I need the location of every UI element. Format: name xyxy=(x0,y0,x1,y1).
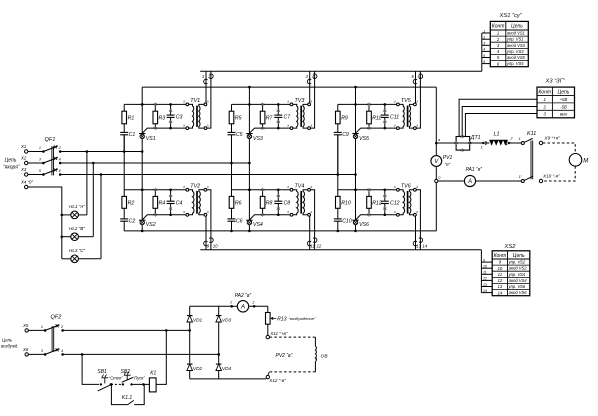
svg-text:13: 13 xyxy=(416,244,421,249)
svg-text:VS4: VS4 xyxy=(253,222,263,228)
svg-text:1: 1 xyxy=(230,300,232,304)
svg-text:11: 11 xyxy=(311,244,315,249)
svg-text:X2: X2 xyxy=(20,156,27,161)
svg-text:TV1: TV1 xyxy=(190,98,200,104)
svg-text:a: a xyxy=(207,100,209,104)
svg-text:“я”: “я” xyxy=(445,162,451,167)
pulse transformer TV4 xyxy=(287,183,312,216)
solder marks TV6 xyxy=(368,188,370,192)
thyristor tap VS4 xyxy=(247,220,251,224)
svg-text:анод VS6: анод VS6 xyxy=(509,290,528,295)
thyristor tap VS2 xyxy=(140,220,144,224)
svg-text:“возбуждение”: “возбуждение” xyxy=(289,316,316,321)
resistor R11 xyxy=(368,104,370,111)
wire XS1 stub 3 xyxy=(482,44,491,46)
wire DT1 signal 1 xyxy=(459,99,537,136)
svg-text:HL2 “B”: HL2 “B” xyxy=(69,226,85,231)
svg-text:VS3: VS3 xyxy=(253,136,263,142)
junction dots TV1 xyxy=(141,103,144,106)
svg-text:“Стоп”: “Стоп” xyxy=(109,376,123,381)
svg-text:XS2: XS2 xyxy=(504,244,517,250)
svg-text:VD1: VD1 xyxy=(193,318,203,324)
wire bus to XS1 xyxy=(481,33,483,71)
svg-text:C10: C10 xyxy=(342,218,352,224)
svg-text:12: 12 xyxy=(498,278,503,283)
svg-text:14: 14 xyxy=(483,289,487,293)
svg-text:C3: C3 xyxy=(176,115,183,121)
svg-text:a: a xyxy=(287,210,289,214)
svg-text:Цепь: Цепь xyxy=(5,158,17,164)
wire lamp drop A xyxy=(86,152,88,215)
capacitor C1 xyxy=(123,124,125,133)
svg-text:3: 3 xyxy=(483,42,485,46)
svg-text:Цепь: Цепь xyxy=(2,338,13,343)
circuit breaker QF1 xyxy=(39,137,62,176)
svg-text:вых: вых xyxy=(560,112,568,117)
wire VS column 1 xyxy=(141,87,143,231)
wire XS2 stub 14 xyxy=(481,292,492,294)
svg-text:ДТ1: ДТ1 xyxy=(470,135,481,141)
wire XS2 stub 11 xyxy=(481,273,492,275)
svg-text:Конт: Конт xyxy=(494,253,507,259)
svg-text:VS6: VS6 xyxy=(359,222,369,228)
wire bridge top rail xyxy=(190,305,238,307)
wire block TV3 top rail xyxy=(232,103,292,105)
pulse transformer TV2 xyxy=(183,183,209,216)
resistor R10 xyxy=(337,190,339,197)
svg-text:SB2: SB2 xyxy=(121,369,131,375)
svg-text:2: 2 xyxy=(482,36,485,40)
contact K11 upper xyxy=(521,142,524,145)
wire DT1 to L1 xyxy=(470,142,483,144)
resistor R8 xyxy=(262,190,264,197)
svg-text:a: a xyxy=(416,123,418,127)
svg-text:X4 “0”: X4 “0” xyxy=(20,180,33,185)
diode VD2 xyxy=(187,364,193,370)
svg-text:R13: R13 xyxy=(277,316,286,322)
svg-text:R11: R11 xyxy=(372,116,381,122)
wire bridge left column xyxy=(189,306,191,379)
svg-text:a: a xyxy=(287,123,289,127)
svg-text:+5В: +5В xyxy=(560,97,568,102)
capacitor C4 xyxy=(170,190,172,201)
wire TV2 secondary to bus pins 9,10 xyxy=(205,216,207,250)
resistor R13 xyxy=(266,313,271,325)
svg-text:Конт: Конт xyxy=(492,24,505,30)
solder marks TV5 xyxy=(368,103,370,107)
svg-text:X6: X6 xyxy=(22,347,29,352)
svg-text:анод VS2: анод VS2 xyxy=(509,266,528,271)
svg-text:X5: X5 xyxy=(22,323,29,328)
wire gate bus upper xyxy=(200,70,482,72)
wire lamp drop B xyxy=(92,163,94,237)
wire SB2 to K1 xyxy=(132,383,150,385)
wire TV1 secondary to bus pins 1,2 xyxy=(205,71,207,103)
resistor R4 xyxy=(154,190,156,197)
svg-text:1: 1 xyxy=(39,146,41,150)
wire L1 to K11 xyxy=(510,142,521,144)
junction dots TV3 xyxy=(248,103,251,106)
svg-text:11: 11 xyxy=(483,271,487,275)
svg-text:C11: C11 xyxy=(390,115,399,121)
svg-text:1: 1 xyxy=(519,137,521,141)
capacitor C9 xyxy=(337,124,339,133)
solder marks TV2 xyxy=(154,188,156,192)
svg-text:X10 “-я”: X10 “-я” xyxy=(542,173,560,178)
svg-text:K11: K11 xyxy=(527,131,536,137)
svg-text:a: a xyxy=(287,100,289,104)
wire phase A bus xyxy=(60,151,142,153)
pushbutton SB1 xyxy=(97,369,123,391)
svg-text:a: a xyxy=(394,210,396,214)
svg-text:1: 1 xyxy=(41,325,43,329)
svg-text:Цепь: Цепь xyxy=(513,253,525,259)
resistor R2 xyxy=(123,190,125,197)
svg-text:X3 “ЗГ”: X3 “ЗГ” xyxy=(545,79,566,85)
svg-text:12: 12 xyxy=(317,244,322,249)
svg-text:a: a xyxy=(183,100,185,104)
svg-text:а: а xyxy=(438,138,440,142)
svg-text:C12: C12 xyxy=(390,201,400,207)
wire R column 2 link xyxy=(231,135,233,190)
wire block TV4 top rail xyxy=(232,189,292,191)
diode VD4 xyxy=(216,364,222,370)
svg-text:a: a xyxy=(311,210,313,214)
node X12 terminal xyxy=(266,375,269,378)
svg-text:TV3: TV3 xyxy=(295,98,305,104)
svg-text:X12 “-в”: X12 “-в” xyxy=(268,378,286,383)
svg-text:6: 6 xyxy=(483,60,485,64)
resistor R1 xyxy=(123,104,125,111)
connector pin 14 xyxy=(419,238,423,243)
capacitor C2 xyxy=(123,208,125,219)
thyristor tap VS3 xyxy=(247,134,251,138)
svg-text:R9: R9 xyxy=(341,116,348,122)
svg-text:14: 14 xyxy=(422,244,427,249)
wire row1 to bridge xyxy=(63,329,190,331)
connector pin 12 xyxy=(313,238,317,243)
svg-text:a: a xyxy=(207,123,209,127)
contact K11 linkage xyxy=(530,141,532,180)
wire positive bus drop xyxy=(435,87,437,156)
svg-text:анод VS3: анод VS3 xyxy=(507,43,526,48)
svg-text:a: a xyxy=(416,185,418,189)
svg-text:VD3: VD3 xyxy=(222,318,232,324)
junction dots TV4 xyxy=(248,189,251,192)
wire block TV1 top rail xyxy=(124,103,187,105)
wire block TV3 lower rail with jog xyxy=(249,128,291,133)
wire bridge bottom rail xyxy=(190,378,267,380)
svg-text:C9: C9 xyxy=(342,132,349,138)
connector pin 13 xyxy=(413,241,417,246)
svg-text:TV6: TV6 xyxy=(401,183,411,189)
wire PV1 to node 0 xyxy=(435,166,437,179)
wire R column 3 link xyxy=(337,135,339,190)
svg-text:L1: L1 xyxy=(494,132,500,138)
wire phase B bus xyxy=(60,162,249,164)
wire K1 to row1 xyxy=(156,330,166,384)
wire DT1 signal 2 xyxy=(462,107,537,137)
svg-text:4: 4 xyxy=(61,349,63,353)
connector pin 1 xyxy=(204,79,208,84)
junction dots TV6 xyxy=(354,189,357,192)
thyristor tap VS6 xyxy=(353,220,357,224)
svg-text:VD4: VD4 xyxy=(222,366,232,372)
junction dots TV2 xyxy=(141,189,144,192)
svg-text:VS1: VS1 xyxy=(146,136,156,142)
wire gate bus lower xyxy=(200,249,481,251)
wire block TV1 lower rail with jog xyxy=(142,128,187,133)
svg-text:a: a xyxy=(311,185,313,189)
svg-text:a: a xyxy=(416,100,418,104)
svg-text:анод VS1: анод VS1 xyxy=(507,31,525,36)
svg-text:R2: R2 xyxy=(128,201,135,207)
resistor R5 xyxy=(231,104,233,111)
svg-text:4: 4 xyxy=(59,157,61,161)
current sensor DT1 xyxy=(454,135,480,152)
svg-text:R3: R3 xyxy=(159,116,166,122)
svg-text:R10: R10 xyxy=(341,201,351,207)
wire R column 1 link xyxy=(123,135,125,190)
wire DC plus rail xyxy=(436,142,456,144)
node X9 terminal xyxy=(539,141,542,144)
svg-text:R8: R8 xyxy=(266,201,273,207)
thyristor tap VS5 xyxy=(353,134,357,138)
svg-text:a: a xyxy=(183,123,185,127)
wire bus to XS2 xyxy=(480,250,482,293)
svg-text:X9 “+я”: X9 “+я” xyxy=(544,135,561,140)
wire negative bus xyxy=(124,230,436,232)
wire X2 to QF1 xyxy=(28,162,44,164)
svg-text:9: 9 xyxy=(483,258,485,262)
svg-text:K1: K1 xyxy=(150,370,156,376)
svg-text:1: 1 xyxy=(202,74,204,79)
wire XS1 stub 2 xyxy=(482,38,491,40)
pulse transformer TV3 xyxy=(287,98,312,130)
svg-text:11: 11 xyxy=(498,272,503,277)
wire positive bus xyxy=(142,86,436,88)
wire TV3 secondary to bus pins 3,4 xyxy=(309,71,311,103)
svg-text:1: 1 xyxy=(483,29,485,33)
field winding OB xyxy=(315,346,316,361)
capacitor C7 xyxy=(277,104,279,115)
svg-text:VS2: VS2 xyxy=(146,222,156,228)
svg-text:C5: C5 xyxy=(236,132,243,138)
svg-text:HL3 “C”: HL3 “C” xyxy=(69,248,86,253)
node X6 terminal xyxy=(25,353,28,356)
svg-text:C8: C8 xyxy=(284,201,291,207)
node 0 xyxy=(435,179,438,182)
svg-text:ОВ: ОВ xyxy=(321,353,329,359)
diode VD1 xyxy=(187,316,193,322)
contact K1.1 xyxy=(111,384,127,404)
wire VS column 3 xyxy=(355,104,357,230)
svg-text:a: a xyxy=(311,100,313,104)
capacitor C8 xyxy=(277,190,279,201)
node X1 input terminal xyxy=(25,150,28,153)
wire X1 to QF1 xyxy=(28,151,44,153)
capacitor C5 xyxy=(231,124,233,133)
node X3 input terminal xyxy=(25,173,28,176)
svg-text:R7: R7 xyxy=(266,116,274,122)
svg-text:a: a xyxy=(416,210,418,214)
wire OB to X12 dashed xyxy=(314,362,316,372)
svg-text:упр. VS6: упр. VS6 xyxy=(508,284,526,289)
svg-text:1: 1 xyxy=(481,145,483,149)
svg-text:a: a xyxy=(183,210,185,214)
wire R13 to X11 xyxy=(267,324,269,335)
svg-text:a: a xyxy=(394,100,396,104)
svg-text:SB1: SB1 xyxy=(97,369,107,375)
svg-text:упр. VS3: упр. VS3 xyxy=(506,49,524,54)
wire TV5 secondary to bus pins 5,6 xyxy=(415,71,417,103)
svg-text:13: 13 xyxy=(483,283,487,287)
wire drop to SB1 xyxy=(82,354,99,384)
capacitor C10 xyxy=(337,208,339,219)
svg-text:12: 12 xyxy=(483,277,487,281)
connector pin 11 xyxy=(307,241,311,246)
wire DT1 signal 3 xyxy=(465,114,537,137)
svg-text:A: A xyxy=(467,179,472,185)
svg-text:анод VS4: анод VS4 xyxy=(509,278,528,283)
wire XS2 stub 12 xyxy=(481,279,492,281)
svg-text:R4: R4 xyxy=(159,201,166,207)
svg-text:упр. VS2: упр. VS2 xyxy=(508,260,526,265)
svg-text:10: 10 xyxy=(213,244,218,249)
node X4 neutral terminal xyxy=(25,185,28,188)
wire block TV2 top rail xyxy=(124,189,187,191)
wire X3 to QF1 xyxy=(28,174,44,176)
connector pin 5 xyxy=(413,79,417,84)
pulse transformer TV6 xyxy=(394,183,419,216)
svg-text:K1.1: K1.1 xyxy=(122,395,133,401)
svg-text:Цепь: Цепь xyxy=(558,89,570,95)
resistor R7 xyxy=(262,104,264,111)
svg-text:TV4: TV4 xyxy=(295,183,305,189)
capacitor C3 xyxy=(170,104,172,115)
wire block TV6 lower rail with jog xyxy=(356,215,398,220)
node X11 terminal xyxy=(266,335,269,338)
svg-text:PV1: PV1 xyxy=(443,155,453,161)
svg-text:10: 10 xyxy=(498,266,503,271)
svg-text:a: a xyxy=(207,185,209,189)
svg-text:2: 2 xyxy=(251,300,254,304)
svg-text:“якоря”: “якоря” xyxy=(3,165,20,171)
connector pin 10 xyxy=(209,238,213,243)
svg-text:R6: R6 xyxy=(235,201,242,207)
wire row2 to bridge xyxy=(63,353,219,355)
svg-text:QF1: QF1 xyxy=(45,137,56,143)
wire X11 to OB dashed xyxy=(270,336,316,338)
resistor R3 xyxy=(154,104,156,111)
svg-text:4: 4 xyxy=(483,48,485,52)
wire TV4 secondary to bus pins 11,12 xyxy=(309,216,311,250)
svg-text:X3: X3 xyxy=(20,167,27,172)
lamp HL2 xyxy=(62,236,71,238)
inductor L1 xyxy=(485,142,490,144)
svg-text:HL1 “A”: HL1 “A” xyxy=(69,204,85,209)
svg-text:упр. VS5: упр. VS5 xyxy=(506,61,524,66)
svg-text:a: a xyxy=(394,123,396,127)
svg-text:X1: X1 xyxy=(20,144,27,149)
wire XS1 stub 1 xyxy=(482,32,491,34)
relay coil K1 xyxy=(149,378,156,392)
svg-text:a: a xyxy=(311,123,313,127)
ammeter PA2 xyxy=(230,305,233,308)
lamp HL1 xyxy=(62,214,71,216)
svg-text:a: a xyxy=(183,185,185,189)
node X10 terminal xyxy=(539,179,542,182)
svg-text:R1: R1 xyxy=(128,116,135,122)
lamp HL3 xyxy=(62,258,71,260)
wire XS2 stub 10 xyxy=(481,267,492,269)
capacitor C6 xyxy=(231,208,233,219)
wire block TV5 top rail xyxy=(338,103,398,105)
wire XS2 stub 13 xyxy=(481,286,492,288)
svg-text:упр. VS1: упр. VS1 xyxy=(506,37,524,42)
resistor R6 xyxy=(231,190,233,197)
connector table X3 xyxy=(537,79,575,118)
svg-text:C2: C2 xyxy=(129,218,136,224)
svg-text:10: 10 xyxy=(483,265,487,269)
svg-text:C1: C1 xyxy=(129,132,136,138)
thyristor tap VS1 xyxy=(140,134,144,138)
svg-text:X11 “+в”: X11 “+в” xyxy=(269,331,288,336)
wire XS1 stub 5 xyxy=(482,57,491,59)
svg-text:упр. VS4: упр. VS4 xyxy=(508,272,526,277)
wire motor to X10 dashed xyxy=(543,166,576,181)
voltmeter PV1 xyxy=(431,156,442,167)
wire TV6 secondary to bus pins 13,14 xyxy=(415,216,417,250)
svg-text:Конт: Конт xyxy=(538,89,551,95)
svg-text:QF2: QF2 xyxy=(51,315,63,321)
svg-text:PA2 “в”: PA2 “в” xyxy=(235,293,252,299)
wire XS1 stub 6 xyxy=(482,63,491,65)
ammeter PA1 xyxy=(464,175,475,186)
svg-text:М: М xyxy=(583,158,588,164)
svg-text:TV5: TV5 xyxy=(401,98,412,104)
connector pin 9 xyxy=(204,241,208,246)
svg-text:-5В: -5В xyxy=(560,104,567,109)
svg-text:Цепь: Цепь xyxy=(511,24,523,30)
svg-text:14: 14 xyxy=(498,290,503,295)
node X5 terminal xyxy=(25,329,28,332)
svg-text:возбужд.: возбужд. xyxy=(1,343,18,348)
connector pin L1-1 xyxy=(482,142,484,144)
svg-text:анод VS5: анод VS5 xyxy=(507,55,526,60)
wire block TV6 top rail xyxy=(338,189,398,191)
wire node 0 down to negative bus xyxy=(435,183,437,231)
pushbutton SB2 xyxy=(121,369,146,386)
wire X6 to QF2 xyxy=(28,353,45,355)
resistor R12 xyxy=(368,190,370,197)
connector table XS2 xyxy=(492,244,530,296)
svg-text:R12: R12 xyxy=(372,201,382,207)
capacitor C11 xyxy=(384,104,386,115)
svg-text:a: a xyxy=(207,210,209,214)
svg-text:a: a xyxy=(394,185,396,189)
diode VD3 xyxy=(216,316,222,322)
svg-text:13: 13 xyxy=(498,284,503,289)
wire VS column 2 xyxy=(248,104,250,230)
wire X5 to QF2 xyxy=(28,329,45,331)
contact K11 lower xyxy=(521,180,524,183)
svg-text:PV2 “в”: PV2 “в” xyxy=(276,353,293,359)
connector pin L1-2 xyxy=(508,142,510,144)
svg-text:a: a xyxy=(287,185,289,189)
svg-text:R5: R5 xyxy=(235,116,242,122)
capacitor C12 xyxy=(384,190,386,201)
